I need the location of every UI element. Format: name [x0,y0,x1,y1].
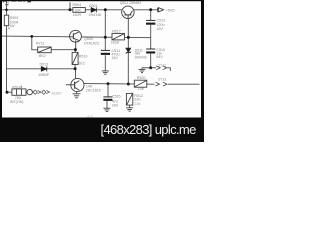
ground C514 [102,71,109,74]
svg-text:1N60P: 1N60P [38,73,50,77]
svg-text:R520: R520 [137,76,146,80]
wire W5 right [168,83,200,85]
ground C515 [103,108,110,111]
wire C515 ground stub [106,101,108,108]
watermark bar [0,118,204,143]
wire J501 middle pin up [20,85,22,89]
power flag +5VD [158,8,164,12]
svg-text:2Y13: 2Y13 [158,77,166,81]
transistor Q510 [66,78,84,91]
svg-text:Q501 2SB564: Q501 2SB564 [120,1,141,5]
junction node W1-mid [104,8,107,11]
junction W4 dot [6,91,9,94]
wire W2 y=36.8 [2,36,151,38]
svg-text:RY11: RY11 [36,42,45,46]
wire W3 to Q510 collector [74,69,76,79]
diode D501 [91,7,96,12]
svg-text:R519: R519 [79,55,88,59]
flag diamond W4 second [42,90,46,94]
ground Q510 [73,94,81,98]
capacitor C516 [146,49,155,54]
ground R512 [126,108,133,111]
flag arrow W4 [38,91,41,94]
wire relay to node B [51,49,75,51]
junction W2 dots [30,35,33,38]
top cut component stub [5,4,8,6]
wire R512 ground stub [129,105,131,108]
wire node A up from W1 [69,2,71,10]
svg-text:64V: 64V [156,55,163,59]
svg-text:R504: R504 [73,3,82,7]
wire left rail x=6.5 [6,2,8,92]
wire R519 to W3 [74,65,76,69]
text labels (gray) [3,1,175,119]
wire mid rail x=105.3 [104,10,106,50]
ground W6 left [139,68,146,73]
svg-text:R503: R503 [10,16,19,20]
zener D511 [126,48,131,53]
svg-text:10K: 10K [138,87,145,91]
svg-text:100mW: 100mW [134,55,147,59]
wire right rail x=150.7 [150,10,152,20]
wire W3 y=69.5 [7,68,76,70]
junction W5 dots [107,82,110,85]
wire W1 top rail y=9.8 [2,9,158,11]
svg-text:1W: 1W [10,24,16,28]
svg-text:2Y11: 2Y11 [158,63,166,67]
svg-text:R518: R518 [12,85,21,89]
capacitor C515 [103,97,112,101]
svg-text:D501: D501 [89,4,98,8]
svg-text:16V: 16V [112,56,119,60]
junction W3 end dot [74,67,77,70]
flag diamond W4 [33,90,37,94]
svg-text:140R: 140R [73,13,82,17]
connector circle W4 [27,89,32,94]
wire W4 y=92.2 [7,91,28,93]
resistor R504 [73,8,85,13]
wire relay branch [32,36,38,49]
connector flags W5 [156,82,168,86]
wire W5 y=84 [84,83,155,86]
svg-text:BK2: BK2 [39,54,46,58]
svg-text:1N4148: 1N4148 [89,13,102,17]
svg-text:[468x283] uplc.me: [468x283] uplc.me [101,122,197,137]
junction rail-W1 [5,9,8,12]
connector J501 boxes [12,89,26,95]
junction W6 dot [149,66,152,69]
capacitor C514 [101,50,110,54]
svg-text:181B: 181B [111,40,120,44]
wire W6 y=67.8 [142,67,156,69]
border frame left [0,0,2,142]
wire W6 right [167,68,170,71]
border frame right [201,0,204,142]
svg-text:+5VD: +5VD [166,8,175,12]
transistor Q509 [69,30,81,49]
diode D513 [41,66,47,71]
svg-text:Q509: Q509 [84,37,93,41]
resistor R519 box [72,52,78,64]
svg-text:16V: 16V [157,27,164,31]
svg-text:R517: R517 [112,29,121,33]
transistor Q501 [122,6,134,18]
connector flags W6 [156,66,166,70]
junction node W1-A [69,8,72,11]
svg-text:51K: 51K [134,97,141,101]
svg-text:D513: D513 [40,63,49,67]
resistor R520 box [134,80,147,87]
wire C513 to W2 [150,25,152,49]
svg-text:DTA1023: DTA1023 [84,42,99,46]
resistor R503 [4,15,8,26]
flag arrow W4 second [46,91,49,94]
resistor R512 box [126,93,132,105]
wire Q510 emitter to ground [76,92,78,94]
svg-text:2SC1815: 2SC1815 [86,88,101,92]
capacitor C513 [146,20,155,24]
svg-text:16V: 16V [112,104,119,108]
wire C515 stub [107,84,109,97]
wire C516 to W6 [150,54,152,68]
svg-text:21K: 21K [134,102,141,106]
junction node W1-right [149,8,152,11]
wire C514 to ground [104,55,106,71]
junction node B [74,48,77,51]
label top cut [3,1,8,2]
relay RY11 box [38,47,52,53]
border frame top [0,0,204,1]
svg-text:INT(ON): INT(ON) [10,100,24,104]
svg-text:2K2: 2K2 [78,61,84,65]
wire W4 circle to flag [32,91,33,93]
svg-text:10R: 10R [75,9,82,13]
svg-text:A115V: A115V [52,91,63,95]
svg-text:C515: C515 [112,95,121,99]
svg-text:1A: 1A [6,27,11,31]
wire node B down [74,50,76,53]
resistor R517 box [112,33,125,40]
wire zener rail x=128.3 [127,18,129,84]
